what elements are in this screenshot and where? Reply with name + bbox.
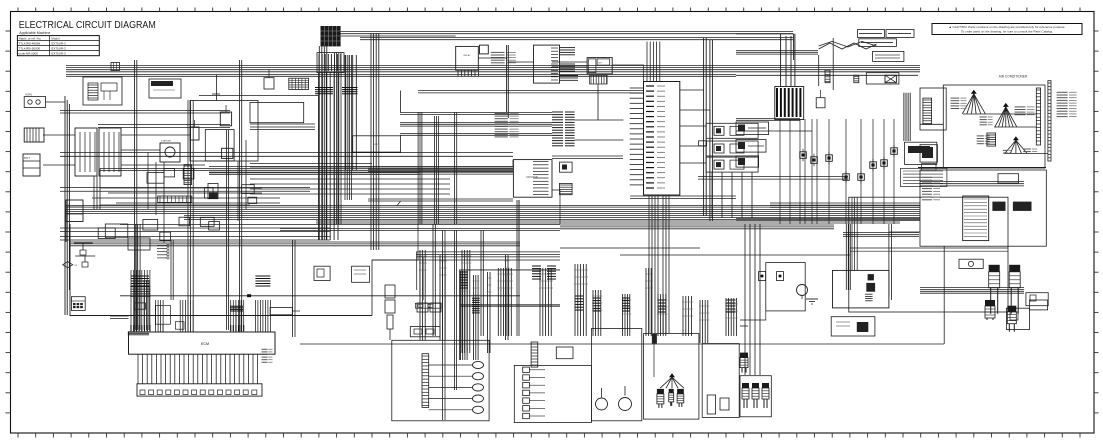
wire bundle gauge B — [400, 123, 552, 127]
label plate TR4 — [873, 51, 904, 61]
ECM box — [129, 332, 276, 354]
diode D1 pair — [242, 185, 255, 194]
wire link h — [575, 139, 624, 141]
wire nest h3 — [92, 197, 280, 199]
label block bundle D — [593, 297, 601, 299]
work light section box — [514, 365, 591, 422]
connector hatch right of CB1 c — [560, 75, 579, 77]
wire trunk V188 — [188, 100, 193, 332]
wire gray band extension — [100, 168, 209, 170]
wire bundle V144 — [144, 280, 149, 330]
resistor chain vertical — [385, 285, 395, 298]
wire bundle down J — [419, 250, 427, 340]
wire bundle V517 — [517, 200, 519, 336]
AC right label column — [1057, 92, 1077, 116]
label block bundle ECM1 — [131, 275, 149, 277]
cab unit box — [905, 142, 937, 164]
relay box RB-a — [143, 219, 158, 230]
harness fan F2 — [995, 103, 1017, 127]
svg-text:Mach. or ref. No.: Mach. or ref. No. — [19, 37, 42, 41]
speaker block 1 — [992, 202, 1005, 211]
fuse comp left1 — [560, 162, 573, 172]
connector hatch rows CL — [130, 286, 150, 288]
svg-text:EX75UR-3: EX75UR-3 — [51, 42, 66, 46]
glow plug GP4 — [473, 395, 484, 402]
alternator box — [190, 127, 199, 140]
lamp plate — [922, 164, 937, 170]
wire bus band extra — [66, 206, 920, 208]
wire bus bottom distribution — [300, 343, 944, 345]
component small mid2 — [175, 322, 184, 330]
key switch KS — [587, 58, 612, 74]
svg-text:BATT: BATT — [24, 157, 30, 160]
wire bundle ECM top 5 — [254, 300, 256, 332]
lamp L7 — [523, 413, 530, 418]
wire bus right gray band — [843, 233, 919, 237]
wire link f — [680, 110, 710, 123]
connector pair mid — [417, 303, 428, 312]
AC vertical strip connector 2 — [1048, 81, 1051, 161]
wire bus battery feed — [736, 51, 818, 55]
wire bus low mid — [460, 304, 560, 306]
label block bundle R — [547, 265, 556, 267]
svg-text:STARTER: STARTER — [161, 140, 171, 143]
wire link a — [341, 35, 456, 37]
wire link l — [889, 231, 920, 233]
gauge wire labels — [495, 114, 519, 137]
wire link g — [575, 119, 624, 121]
travel connector 2 — [669, 389, 674, 406]
sensor SW8 — [891, 145, 898, 157]
battery B1 — [24, 128, 44, 142]
wire trunk V371 — [371, 33, 379, 250]
wire bundle down K — [439, 255, 447, 340]
wire trunk V345 — [345, 55, 352, 200]
wire bundle down P — [487, 272, 492, 353]
relay box RB-c — [205, 188, 214, 199]
AC wire labels L4 — [977, 136, 990, 144]
wire pair bottom nest2 — [60, 236, 330, 238]
wire trunk V134 — [135, 60, 137, 332]
travel connector 1 — [657, 389, 664, 408]
wire bus glow plug feed — [920, 288, 1024, 294]
bottom-left cluster box — [740, 376, 771, 417]
wire seg right mid1 — [560, 247, 700, 249]
label block bundle I — [726, 299, 736, 301]
wire bus lower gauge — [368, 199, 513, 201]
ground symbol G1 — [806, 298, 818, 300]
pressure switch PS3 — [826, 152, 833, 164]
wire corner band — [512, 160, 514, 167]
sensor unit SU1 — [208, 183, 218, 198]
injector stack 2 — [1009, 265, 1020, 314]
switch tee SW-B — [75, 255, 95, 257]
AC wire labels L1 — [951, 98, 967, 108]
wire bundle gauge A — [400, 113, 552, 115]
junction blob — [247, 294, 251, 297]
sensor SW6 — [870, 159, 877, 171]
wire nest h4 — [116, 202, 280, 204]
wire bundle ECM top 2 — [155, 300, 157, 332]
wire hatch labels ECM top2 — [230, 325, 232, 331]
sensor SW4 — [843, 171, 850, 183]
wire trunk V455 — [455, 230, 457, 390]
wire bundle V433 — [433, 224, 435, 336]
relay box RB-d — [209, 222, 220, 231]
wire bundle fuse box drop — [319, 73, 339, 240]
svg-text:RELAY: RELAY — [463, 54, 471, 57]
battery main — [66, 200, 83, 222]
wire bundle V418 — [418, 112, 422, 224]
switch box SB-a — [147, 173, 164, 184]
wire bus bottom row1 — [736, 219, 920, 221]
starter relay box SR — [456, 46, 479, 70]
wire vertical pair V1 — [703, 38, 705, 216]
label block bundle G — [658, 299, 666, 301]
latch relay LR — [816, 98, 825, 108]
section container corner — [460, 270, 560, 360]
fuel unit box — [352, 136, 401, 152]
svg-text:ECM: ECM — [201, 342, 209, 346]
relay small box — [134, 303, 145, 309]
travel caps — [652, 334, 657, 344]
wire bundle down E — [622, 294, 632, 336]
wire bundle down B — [539, 268, 553, 336]
wire nest v5 — [245, 140, 247, 209]
caution note box — [932, 24, 1082, 35]
cluster stack 3 — [762, 383, 769, 408]
fusible link box FL1 — [75, 128, 97, 176]
relay plate bottom — [410, 327, 440, 337]
fuse F21 — [264, 78, 274, 89]
wire corner gauge — [400, 91, 402, 113]
connector CN11 pins — [157, 245, 169, 259]
wire bundle V135 — [135, 224, 140, 330]
wire bundle V481 — [481, 230, 483, 336]
wire bus sensor mid — [736, 130, 812, 132]
label plate TR1 — [858, 30, 885, 38]
label plate TR3 — [859, 39, 897, 47]
radio controller box — [963, 196, 989, 241]
wire bundle down L — [461, 250, 471, 353]
svg-text:EX75UR-3: EX75UR-3 — [51, 52, 66, 56]
wire alternator to bus — [216, 75, 218, 101]
wire bus monitor feed — [368, 167, 513, 171]
pin leads into CN1 — [630, 87, 644, 89]
fuse row FR-b — [160, 232, 171, 241]
wire link m — [920, 123, 943, 125]
wire bus mid gray band — [209, 167, 513, 175]
fuse row FR-a — [98, 228, 115, 239]
wire bottom bus right — [740, 325, 748, 327]
wire bus lower main A — [66, 210, 920, 214]
svg-text:AIR CONDITIONER: AIR CONDITIONER — [999, 75, 1028, 79]
fuse box connector cluster — [317, 53, 344, 73]
wire bus upper main — [330, 32, 793, 34]
wire left vertical bus — [64, 96, 66, 315]
label block bundle ECM5 — [255, 275, 270, 277]
wire nest v2 — [155, 162, 157, 215]
air conditioner section box — [943, 85, 1045, 168]
wire bundle left fuse drop — [94, 176, 97, 209]
label block bundle Q — [532, 265, 541, 267]
glow plug plate — [959, 259, 983, 268]
harness fan F1 — [962, 90, 985, 114]
wire single alternator row — [199, 95, 318, 97]
fuel box small — [1026, 293, 1048, 306]
fuel sensor unit — [707, 395, 715, 414]
wire bundle to harness junction — [780, 34, 782, 87]
wire bundle ECM bottom — [137, 354, 139, 384]
AC wire labels L3 — [980, 117, 993, 125]
relay K3 — [128, 238, 150, 250]
wire nest v3 — [163, 162, 165, 243]
wire bus lower main B — [184, 216, 920, 220]
switch box SB-c — [183, 168, 194, 179]
connector hatch right of CB1 a — [560, 47, 576, 49]
AC wire labels L6 — [1023, 149, 1037, 152]
wire link k — [740, 311, 766, 320]
wire hatch labels ECM top — [130, 325, 132, 331]
glow plug GP3 — [473, 384, 484, 391]
wire bus below sensors — [770, 203, 920, 207]
wire bundle above CN1 — [647, 42, 660, 82]
lamp L1 — [523, 367, 530, 372]
svg-text:▲ CAUTION: Parts numbers on th: ▲ CAUTION: Parts numbers on the drawing … — [949, 25, 1066, 29]
fusible link box FL2 — [99, 128, 121, 176]
wire pair gauge feed — [418, 91, 643, 93]
label block bundle E — [622, 297, 630, 299]
travel connector 3 — [677, 389, 684, 407]
solenoid valve 2 — [777, 272, 784, 281]
wire key switch feed — [552, 61, 587, 63]
harness zigzag wires — [819, 43, 877, 49]
svg-text:TTL4JR0-50000: TTL4JR0-50000 — [18, 47, 40, 51]
pin hatch block B — [565, 111, 575, 113]
wire bundle down I — [725, 298, 738, 336]
wire bus AC bottom — [918, 167, 1046, 169]
svg-text:ELECTRICAL CIRCUIT DIAGRAM: ELECTRICAL CIRCUIT DIAGRAM — [19, 20, 156, 31]
hatch connector col — [472, 297, 480, 299]
pressure sensor circle — [797, 285, 808, 296]
svg-text:Applicable Machine: Applicable Machine — [19, 31, 50, 35]
wire bus relay link — [552, 156, 623, 158]
AC wire labels L2 — [1015, 107, 1035, 115]
wire bus cab feed — [920, 182, 1024, 186]
wire bundle CN1 drop2 — [663, 195, 669, 333]
wire bundle V454 — [455, 112, 457, 224]
wire pump controller feeds — [850, 247, 1008, 249]
wire bundle down D — [592, 290, 602, 336]
wire trunk V517 extension — [518, 200, 520, 268]
box left of trunks — [250, 103, 304, 123]
cab section box R2 — [920, 170, 1046, 246]
pump controller box — [833, 270, 889, 308]
trunk connector hatch B — [342, 87, 358, 89]
wire ECM left feed — [110, 315, 129, 317]
diode block plate — [866, 73, 899, 84]
vertical hatch bundle right — [903, 93, 905, 141]
glow unit box — [149, 79, 181, 98]
wire bus under CN1 — [630, 196, 736, 199]
monitor controller box — [513, 160, 552, 198]
speaker block 2 — [1013, 202, 1032, 211]
wire horn feed — [46, 101, 65, 103]
label block bundle N — [460, 271, 468, 273]
relay box RB3 — [706, 157, 758, 172]
horn section box — [591, 329, 641, 421]
cluster stack 1 — [742, 383, 749, 408]
fuse plate P2 — [736, 140, 766, 153]
wire nest h2 — [108, 192, 262, 194]
lamp L3 — [523, 383, 530, 388]
wire link n — [65, 210, 67, 243]
svg-text:EX75UR-3: EX75UR-3 — [51, 47, 66, 51]
wire seg right mid2 — [620, 254, 850, 256]
ECM connector strip — [137, 384, 262, 396]
wire bundle ECM left rise — [130, 270, 132, 296]
wire bus lower main C — [316, 221, 900, 223]
switch box SB-b — [164, 168, 175, 177]
wire vertical x944 — [943, 246, 945, 344]
fuse holder F30 — [699, 141, 707, 146]
wire nest v4 — [237, 161, 239, 221]
AC fan link 3 — [1004, 152, 1048, 154]
resistor R1 — [200, 217, 214, 226]
lamp L2 — [523, 375, 530, 380]
wire bundle down A — [497, 268, 513, 336]
wire bus under relays — [698, 177, 848, 180]
wire drop 818 — [818, 55, 820, 86]
wire pair bottom nest — [60, 227, 330, 229]
wire bus key switch row — [66, 66, 920, 72]
pressure switch PS2 — [811, 154, 818, 166]
component small mid — [155, 305, 170, 324]
wire bundle down N — [460, 271, 469, 360]
wire vertical main drop C1 — [506, 45, 508, 112]
wire bundle CN1 drop — [649, 195, 658, 333]
bus connector pair — [111, 63, 120, 71]
wire bundle ECM top 3 — [179, 300, 181, 332]
wire bus mid band2 — [209, 173, 420, 175]
inline connector pair B — [854, 75, 859, 83]
solenoid box SL — [766, 263, 805, 311]
svg-text:HORN: HORN — [25, 93, 32, 96]
wire bus controller feed — [560, 225, 834, 229]
fuel pump section box — [702, 344, 739, 418]
starter motor S1 — [160, 143, 180, 162]
AC hatch connector — [987, 133, 996, 146]
wire trunk V443 — [443, 230, 446, 420]
AC fan link 2 — [994, 126, 1036, 128]
horn H1 — [596, 398, 608, 410]
wire bus accessory row right — [736, 74, 918, 76]
wire bundle down C — [574, 264, 588, 336]
wire nest h8 — [250, 123, 315, 125]
wire link e — [680, 89, 704, 91]
svg-text:CB: CB — [74, 265, 78, 267]
wire section boundary mid — [372, 260, 560, 316]
pin hatch block A — [552, 111, 563, 113]
injector stack 1 — [989, 265, 1000, 314]
wire section boundary lower-left — [70, 224, 372, 316]
wire vertical pair V2 — [709, 40, 711, 221]
tall connector strip mid — [531, 342, 538, 367]
fuse box FB (dark block) — [321, 26, 341, 46]
resistor row plate — [415, 303, 441, 308]
wire bundle cluster up — [744, 300, 746, 375]
cluster stack 2 — [752, 383, 759, 408]
wire bus pump section — [70, 242, 520, 246]
fuse box small — [480, 45, 489, 54]
wire bundle down M — [699, 300, 709, 343]
wire bundle pump in — [845, 224, 847, 290]
wire pair trunk low — [250, 163, 372, 165]
wire trunk V226 — [227, 130, 229, 330]
wire bundle V434 — [434, 116, 438, 224]
breaker diamond — [63, 262, 73, 268]
wire bus accessory row — [66, 75, 736, 77]
wire bundle down Q — [505, 255, 510, 340]
wire trunk V319 — [319, 46, 327, 240]
wire bus sensor top — [736, 119, 800, 121]
fuse comp left2 — [560, 183, 573, 194]
svg-text:MONITOR: MONITOR — [526, 176, 538, 179]
hatch comp above ECM — [230, 305, 243, 307]
injector stack 3 — [1007, 306, 1016, 332]
horn H2 — [619, 398, 632, 411]
wire nest h1 — [100, 187, 262, 189]
main connector block CN1 — [644, 82, 680, 196]
wire link c — [508, 61, 533, 63]
connector hatch right of CB1 b — [560, 63, 576, 65]
wire link CN1 relays — [680, 125, 706, 127]
glow plug section box — [392, 340, 489, 421]
wire relay drops — [711, 172, 713, 218]
cab hatch plate — [901, 168, 947, 186]
lamp L4 — [523, 390, 530, 395]
wire battery to fusible link — [43, 134, 75, 136]
wire link i — [552, 190, 560, 224]
wire trunk V239 — [240, 60, 242, 332]
wiper box — [556, 347, 573, 359]
label plate TR2 — [886, 30, 914, 38]
lamp unit dark — [920, 145, 937, 162]
cluster stack small — [740, 353, 748, 373]
wire bundle down H — [682, 296, 693, 336]
wire bus solenoid row — [280, 229, 560, 231]
wire link d — [612, 65, 643, 82]
wire bus upper second — [360, 38, 793, 40]
relay box TL2 — [83, 77, 122, 105]
wire nest v1 — [147, 152, 149, 209]
key switch connectors — [590, 75, 608, 84]
wire pair mid-left — [60, 152, 513, 154]
svg-text:Model: Model — [51, 37, 60, 41]
wire nest h5 — [60, 110, 230, 112]
wire corner top right bus — [736, 33, 794, 35]
wire trunk V334 — [334, 52, 341, 224]
wire verticals sensor field — [779, 119, 781, 224]
wire bundle gauge C — [400, 134, 552, 136]
hatch strip left — [184, 165, 192, 185]
wire bundle right of fuse box — [346, 55, 357, 170]
battery B2 — [23, 154, 40, 176]
AC wire labels L5 — [1003, 150, 1012, 153]
wire labels starter relay — [491, 52, 516, 65]
wire bundle pump riser — [852, 197, 857, 270]
outer box around starter area — [190, 101, 258, 162]
